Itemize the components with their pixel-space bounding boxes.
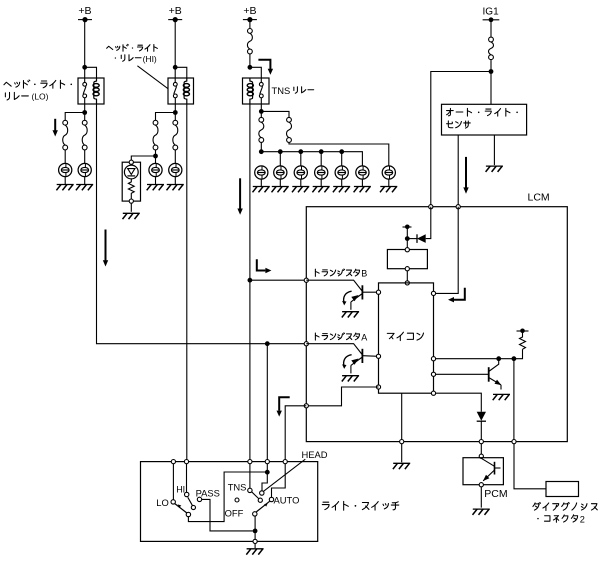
arrow current direction TNS — [237, 178, 242, 215]
relay coil TNS — [247, 78, 253, 104]
arrow head signal — [277, 397, 290, 416]
resistor pull-up — [520, 331, 526, 349]
junction node HI lamps — [173, 110, 178, 115]
junction node bus 5 — [339, 149, 344, 154]
lamp headlight HI right — [169, 163, 182, 176]
ground transistor Q — [493, 394, 510, 400]
LCM box — [306, 207, 567, 442]
contact PASS — [196, 488, 220, 502]
svg-text:HI: HI — [176, 484, 185, 494]
lever dimmer switch — [175, 504, 187, 513]
wire indicator to ground — [130, 203, 132, 212]
contact HI — [176, 484, 189, 496]
wire branch to LO relay coil — [85, 67, 97, 78]
label HEAD — [302, 449, 328, 460]
wire LO coil to LCM (horizontal run) — [97, 104, 307, 344]
lamp TNS 4 — [315, 166, 328, 179]
power +B node (TNS feed) — [243, 5, 257, 22]
svg-text:2: 2 — [580, 514, 585, 524]
label headlight relay LO line1 — [4, 80, 72, 88]
label light switch — [322, 501, 399, 510]
junction node bus 2 — [278, 149, 283, 154]
label auto light sensor line2 — [447, 121, 471, 128]
pin microcomputer top — [405, 281, 409, 285]
wire HI lamp left to ground — [155, 177, 157, 185]
junction node TNS relay feed — [248, 65, 253, 70]
pin microcomputer corner — [431, 391, 435, 395]
arrow current direction HI — [103, 230, 108, 267]
wire microcomputer to resistor — [436, 349, 523, 358]
wire HI coil to light switch — [186, 104, 188, 462]
wire junction to HEAD contact — [262, 474, 267, 490]
pin LCM left 3 — [304, 404, 308, 408]
svg-text:TNS: TNS — [228, 481, 247, 492]
wire power to junction — [406, 227, 408, 239]
lamp TNS 2 — [274, 166, 287, 179]
wire lamp right to ground — [84, 177, 86, 185]
ground transistor B — [342, 312, 359, 318]
junction node head feed — [265, 341, 270, 346]
wire head feed to switch — [266, 344, 268, 462]
wire to TNS bus — [260, 142, 262, 152]
wire junction to regulator — [406, 239, 408, 248]
wire to LO lamp right — [84, 150, 86, 164]
wire LCM head pin to switch — [285, 406, 306, 462]
wire lamp left to ground — [64, 177, 66, 185]
pin switch 5 — [283, 460, 287, 464]
label headlight relay HI line1 — [107, 44, 158, 51]
wire microcomputer ground pin — [401, 393, 403, 439]
wire to HI lamp left — [155, 150, 157, 164]
arrow into TNS relay — [258, 60, 273, 75]
power +B node (headlight LO feed) — [78, 5, 92, 22]
wire TNS lamp 1 to ground — [260, 179, 262, 186]
pin LCM bottom 3 — [512, 440, 516, 444]
ground transistor A — [342, 376, 359, 382]
label headlight relay LO line2 — [5, 91, 48, 101]
wire TNS lamp bus — [261, 152, 362, 166]
pin LCM left 2 — [304, 342, 308, 346]
wire TNS contact to junction — [260, 98, 262, 118]
wire to LO contact — [172, 464, 174, 500]
pin switch 3 — [248, 460, 252, 464]
pin regulator bottom — [405, 267, 409, 271]
svg-text:HEAD: HEAD — [302, 449, 328, 460]
wire microcomputer to diode D2 — [436, 393, 482, 412]
junction node bus 3 — [298, 149, 303, 154]
junction node switch ground — [253, 529, 258, 534]
relay box headlight HI — [168, 78, 194, 104]
label diagnosis connector line1 — [533, 502, 597, 510]
wire to TNS contact — [249, 464, 251, 489]
junction node HI relay feed — [173, 65, 178, 70]
label microcomputer — [387, 332, 423, 340]
arrow into microcomputer — [448, 288, 465, 303]
pin microcomputer right 2 — [431, 357, 435, 361]
relay box TNS — [243, 78, 270, 104]
ground indicator unit — [123, 213, 140, 219]
contact dimmer common — [186, 512, 190, 516]
ground HI lamp right — [167, 185, 184, 191]
arrow sensor signal — [463, 157, 468, 194]
connector TNS left — [259, 117, 264, 142]
svg-text:AUTO: AUTO — [274, 495, 300, 506]
ground LO lamp right — [76, 185, 93, 191]
ground TNS lamp 3 — [292, 187, 309, 193]
wire TNS lamp 6 to ground — [361, 179, 363, 186]
connector TNS right — [287, 117, 292, 142]
label transistor A — [315, 332, 367, 342]
wire to HI contact — [186, 464, 188, 493]
pin microcomputer left A — [376, 354, 380, 358]
pin switch ground — [253, 539, 257, 543]
pin LCM bottom 2 — [479, 440, 483, 444]
junction node TNS sense — [248, 278, 253, 283]
pin microcomputer right 3 — [431, 372, 435, 376]
junction node head in switch — [265, 470, 270, 475]
lamp TNS 3 — [294, 166, 307, 179]
regulator box — [387, 250, 427, 269]
wire to HI indicator box — [131, 156, 155, 162]
svg-text:+B: +B — [243, 5, 256, 17]
wire +B to relay LO switch — [84, 20, 86, 83]
wire microcomputer to transistor base — [436, 373, 489, 375]
label diagnosis connector line2 — [537, 514, 585, 524]
label auto light sensor line1 — [447, 108, 518, 116]
wire microcomputer to HEAD pin — [308, 387, 378, 406]
connector HI lamp right — [173, 120, 178, 150]
lamp TNS 6 — [356, 166, 369, 179]
svg-text:(LO): (LO) — [32, 91, 49, 101]
wire TNS lamp 3 to ground — [300, 179, 302, 186]
pin LCM left 1 — [304, 278, 308, 282]
wire +B to relay HI switch — [174, 20, 176, 83]
wire to AUTO contact — [272, 464, 286, 498]
wire switch pin4 to junction — [266, 464, 268, 470]
ground TNS lamp 7 — [380, 187, 397, 193]
wire LO relay to lamps junction — [84, 98, 86, 121]
svg-text:+B: +B — [78, 5, 91, 17]
ground LO lamp left — [56, 185, 73, 191]
wire TNS lamp 5 to ground — [341, 179, 343, 186]
power node internal 1 — [403, 225, 412, 230]
power node internal 2 — [517, 329, 529, 334]
relay box headlight LO — [78, 78, 104, 104]
wire LCM pin1 to diode — [426, 207, 431, 239]
wire TNS lamp 7 to ground — [388, 179, 390, 186]
lamp TNS 5 — [335, 166, 348, 179]
wire TNS lamp 2 to ground — [279, 179, 281, 186]
svg-text:A: A — [361, 332, 367, 342]
wire branch to right TNS connector — [261, 111, 289, 117]
wire sensor signal to microcomputer — [436, 207, 459, 294]
pin switch 2 — [184, 460, 188, 464]
ground TNS lamp 1 — [253, 187, 270, 193]
pin switch 1 — [171, 460, 175, 464]
wire transistor B base — [306, 280, 362, 291]
junction node bus 4 — [319, 149, 324, 154]
transistor A — [351, 349, 379, 374]
junction node collector — [496, 356, 501, 361]
wire connector to IG1 junction — [490, 59, 492, 71]
label transistor B — [315, 269, 367, 279]
diode D1 — [417, 234, 426, 243]
svg-text:LCM: LCM — [528, 192, 550, 204]
microcomputer box — [379, 283, 434, 393]
wire TNS sense to LCM — [250, 279, 306, 281]
relay coil HI — [183, 78, 189, 104]
wire +B to TNS connector — [249, 20, 251, 29]
contact main common — [253, 512, 257, 516]
relay coil LO — [93, 78, 99, 104]
pin microcomputer left B — [376, 290, 380, 294]
lamp TNS 7 — [382, 166, 395, 179]
ground auto light sensor — [486, 166, 503, 172]
wire regulator to microcomputer — [406, 271, 408, 281]
ground light switch — [246, 549, 263, 555]
wire connector to TNS junction — [249, 54, 251, 68]
wire switch to ground — [254, 544, 256, 549]
label pointer line HI relay — [137, 66, 168, 89]
label PCM — [484, 488, 507, 500]
indicator LED circle — [124, 165, 138, 179]
wire main common to ground node — [254, 516, 256, 539]
wire sensor output to LCM — [457, 135, 459, 205]
junction node TNS lamps feed — [259, 109, 264, 114]
arrow transistor A gain — [342, 355, 352, 369]
resistor in indicator unit — [128, 179, 134, 199]
ground TNS lamp 6 — [354, 187, 371, 193]
svg-text:(HI): (HI) — [143, 54, 157, 64]
pin switch 4 — [265, 460, 269, 464]
pin LCM bottom 1 — [400, 440, 404, 444]
svg-text:IG1: IG1 — [483, 6, 500, 17]
position OFF — [225, 498, 244, 518]
diode D2 — [477, 412, 486, 421]
wire dimmer common run — [188, 472, 265, 522]
wire branch to left LO lamp — [65, 113, 85, 121]
lamp headlight LO left — [59, 163, 72, 176]
lamp TNS 1 — [255, 166, 268, 179]
transistor Q output — [489, 359, 502, 390]
arrow transistor B gain — [342, 291, 352, 305]
light switch box — [141, 462, 318, 542]
svg-text:+B: +B — [169, 5, 182, 17]
wire LCM to chassis ground — [401, 444, 403, 463]
wire transistor A base — [306, 344, 362, 355]
svg-text:PASS: PASS — [196, 488, 220, 499]
svg-text:LO: LO — [156, 497, 169, 508]
label LCM — [528, 192, 550, 204]
wire to HI lamp right — [174, 150, 176, 164]
svg-text:OFF: OFF — [225, 507, 244, 518]
wire diode to junction — [407, 238, 417, 240]
connector HI lamp left — [153, 120, 158, 150]
junction node bus 1 — [259, 149, 264, 154]
auto light sensor box — [442, 104, 527, 135]
wire HI relay to lamps junction — [174, 98, 176, 121]
pin PCM top — [479, 454, 483, 458]
connector TNS feed — [247, 29, 252, 54]
wire output to LCM pin — [513, 359, 515, 442]
pin microcomputer right 1 — [431, 291, 435, 295]
relay contact LO — [83, 82, 87, 97]
ground TNS lamp 2 — [272, 187, 289, 193]
power IG1 node — [483, 6, 500, 22]
junction node output — [512, 356, 517, 361]
ground TNS lamp 5 — [333, 187, 350, 193]
junction node IG1 branch — [489, 69, 494, 74]
relay contact TNS — [259, 82, 263, 97]
svg-text:TNS: TNS — [272, 85, 291, 96]
lamp headlight HI left — [149, 163, 162, 176]
pin indicator bottom — [129, 199, 133, 203]
junction node LO lamps — [82, 110, 87, 115]
wire branch to HI relay coil — [175, 67, 187, 78]
label TNS relay — [272, 85, 314, 96]
wire TNS right run to lamp 7 — [289, 142, 389, 166]
label headlight relay HI line2 — [115, 54, 157, 64]
wire diode D2 to LCM pin — [480, 421, 482, 439]
wire TNS coil down to LCM branch — [249, 104, 251, 462]
contact HEAD — [260, 491, 264, 495]
power +B node (headlight HI feed) — [168, 5, 182, 22]
wire IG1 to connector — [490, 20, 492, 38]
contact TNS — [228, 481, 252, 492]
pin LCM top 1 — [429, 205, 433, 209]
ground PCM — [473, 509, 490, 515]
lamp headlight LO right — [78, 163, 91, 176]
junction node regulator top — [405, 236, 410, 241]
ground HI lamp left — [147, 185, 164, 191]
connector LO lamp left — [63, 120, 68, 150]
label pointer line HEAD — [264, 459, 306, 491]
lever dimmer HI arm — [188, 497, 196, 509]
wires bus to TNS lamps — [280, 152, 341, 166]
connector IG1 — [489, 37, 494, 60]
wire LCM to diagnosis connector — [514, 444, 546, 489]
wire IG1 to sensor — [490, 72, 492, 105]
relay contact HI — [173, 82, 177, 97]
contact AUTO — [269, 495, 299, 506]
wire to LO lamp left — [64, 150, 66, 164]
wire sensor to ground — [493, 135, 495, 165]
wire branch to TNS relay contact — [250, 67, 261, 82]
arrow into LCM TNS sense — [257, 259, 272, 273]
junction node HI indicator feed — [153, 154, 158, 159]
svg-text:PCM: PCM — [484, 488, 507, 500]
pin PCM bottom — [479, 483, 483, 487]
wire PCM to ground — [480, 487, 482, 508]
transistor B — [351, 285, 379, 310]
wire IG1 branch to LCM — [431, 72, 491, 205]
lever main switch — [256, 501, 269, 512]
connector LO lamp right — [82, 120, 87, 150]
diagnosis connector box — [546, 482, 579, 497]
transistor PCM — [481, 458, 500, 481]
pin indicator top — [129, 160, 133, 164]
svg-text:B: B — [361, 269, 367, 279]
wire TNS lamp 4 to ground — [320, 179, 322, 186]
wire PASS run — [202, 499, 253, 531]
wire LCM to PCM — [480, 444, 482, 454]
wire HI lamp right to ground — [174, 177, 176, 185]
contact LO — [156, 497, 175, 508]
arrow current direction LO — [53, 119, 58, 137]
ground LCM — [393, 463, 410, 469]
indicator unit box — [122, 162, 140, 201]
lever TNS arm — [252, 492, 263, 502]
pin LCM top 2 — [456, 205, 460, 209]
pin regulator top — [405, 248, 409, 252]
PCM box — [463, 458, 503, 485]
wire branch to left HI lamp — [156, 113, 176, 121]
junction node LO relay feed — [82, 65, 87, 70]
pin microcomputer left head — [376, 385, 380, 389]
ground TNS lamp 4 — [312, 187, 329, 193]
